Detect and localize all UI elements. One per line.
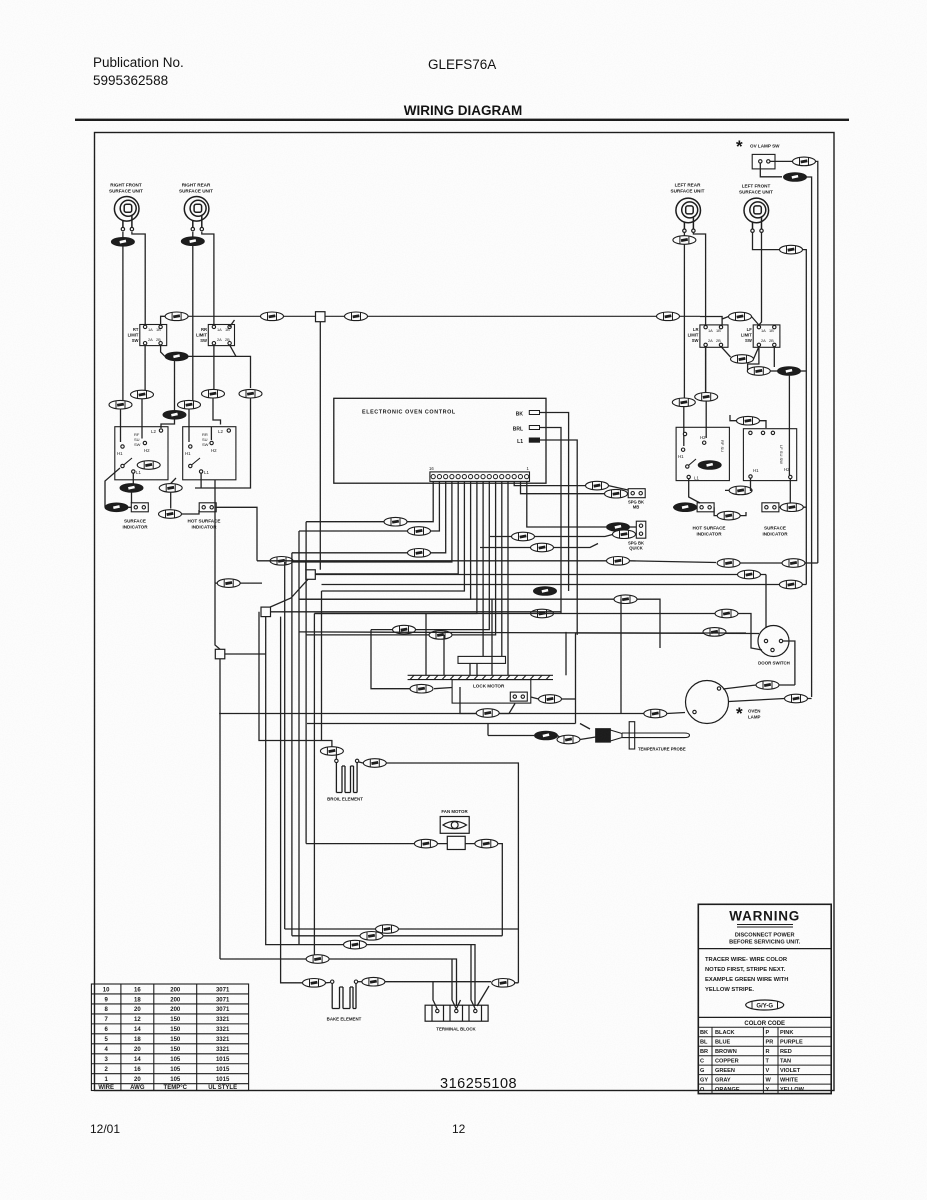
connector broil left — [320, 747, 343, 756]
wire LR L1 down — [689, 479, 700, 503]
connector bus 371 a — [747, 367, 770, 376]
connector probe 1 — [535, 731, 558, 740]
wire bus 574 into door switch — [765, 575, 767, 629]
broil element — [335, 759, 359, 792]
wire L1 right down — [540, 440, 578, 635]
wire right ind 3 down — [730, 415, 766, 428]
connector right bus top — [729, 312, 752, 321]
wire EOC t5 to lock bracket — [501, 481, 503, 656]
wire bus 612 — [271, 611, 562, 613]
wire probe 2b — [580, 737, 596, 740]
connector low right — [492, 979, 515, 988]
connector spg bk quick 1 — [607, 523, 630, 532]
connector block hot surface right — [697, 503, 714, 512]
left front surface unit LF — [744, 198, 769, 232]
connector door area — [756, 681, 779, 690]
wire bundle v4 — [305, 522, 307, 844]
connector surface indicator — [120, 484, 143, 493]
wire LR sw pin down — [705, 347, 707, 395]
wire right ind mid link — [714, 507, 746, 515]
connector inside RF su sw — [137, 461, 160, 470]
wire surface ind left — [105, 468, 131, 507]
wire bundle v5 — [313, 614, 315, 956]
connector spg bk quick 2 — [613, 530, 636, 539]
wire probe 1b — [488, 724, 563, 740]
wire bake feed — [281, 617, 302, 983]
wire right ind left link — [673, 506, 697, 508]
connector hot surface 2 — [159, 510, 182, 519]
wire bus to RR sw pin — [230, 320, 235, 327]
wire bus 632 — [299, 632, 759, 634]
wire low bus 959 to block — [329, 959, 457, 1006]
wire broil left up — [335, 751, 337, 759]
connector below lock — [476, 709, 499, 718]
wire bus 584 — [322, 584, 807, 586]
wire right ind right link — [779, 506, 806, 508]
connector below right sw — [731, 355, 754, 364]
wire to RF su sw L2 — [161, 419, 175, 428]
wire gauge table — [91, 984, 248, 1091]
LF limit switch box — [753, 325, 780, 347]
wire spg bk mb link — [609, 486, 629, 490]
wire door area links — [723, 685, 795, 689]
wire LR 2A to indicator — [705, 347, 708, 438]
wire low bus 945 to block — [367, 945, 475, 1006]
connector mid feed — [531, 543, 554, 552]
connector bus 371 b — [778, 367, 801, 376]
wire LR left lead down to indicator — [683, 244, 685, 398]
connector bake right — [362, 977, 385, 986]
wire junction top to mid — [319, 322, 321, 570]
wire bake left link — [326, 982, 331, 984]
connector top bus mid — [261, 312, 284, 321]
wire broil right — [359, 762, 363, 763]
connector fan left — [414, 839, 437, 848]
wire bundle v3 — [298, 531, 300, 945]
connector quick feed 1 — [512, 532, 535, 541]
connector LF lead — [780, 245, 803, 254]
wire LF H2 down — [789, 479, 791, 503]
wire into RF su sw H1 — [120, 409, 122, 442]
wire to block right — [477, 983, 518, 1006]
connector top bus left — [165, 312, 188, 321]
wire lamp sw left pin down — [760, 163, 782, 177]
connector spg bk quick — [636, 521, 646, 538]
terminal block — [425, 1005, 488, 1021]
wire junction2 down — [266, 617, 299, 945]
wire block pin2 up — [452, 959, 461, 1009]
connector fan wire 2 — [408, 527, 431, 536]
wire bundle v1 — [284, 562, 286, 929]
connector above surface ind 5 — [178, 400, 201, 409]
wire bus 599 — [299, 599, 660, 648]
wire lock left — [434, 688, 452, 689]
wire bake right bus — [385, 981, 491, 983]
wire to indicator block — [131, 492, 133, 503]
wire hot surface link — [182, 510, 200, 514]
wire RR sw down — [213, 345, 215, 389]
wire EOC t13 — [285, 481, 452, 562]
connector LR lead — [673, 236, 696, 245]
wire lock left up — [371, 630, 410, 689]
tracer example oval — [746, 1000, 784, 1010]
connector BK wire — [534, 587, 557, 596]
title underline — [75, 119, 849, 121]
warning box — [698, 904, 831, 1093]
connector low 929 — [376, 925, 399, 934]
oven lamp — [686, 681, 729, 724]
connector inside LR su sw — [698, 461, 721, 470]
connector right ind 3 — [737, 416, 760, 425]
connector right ind 2 — [695, 393, 718, 402]
wire lock hatch feed 2 — [443, 635, 445, 675]
wire RT sw to bus — [161, 316, 165, 325]
wire into RF su sw — [141, 399, 143, 439]
wire bus to junction1 — [305, 561, 307, 570]
wire quick link 2 — [490, 536, 511, 538]
wire RR left lead down — [192, 246, 194, 405]
wire RR sw pin to lower bus — [230, 345, 236, 357]
wire bus 561 right — [630, 561, 716, 563]
wire block pin1 up — [433, 982, 437, 1009]
wire bus 583 — [215, 582, 262, 584]
wire 371 to right edge — [800, 370, 806, 372]
wire bake right — [358, 981, 362, 983]
connector RR lead — [181, 237, 204, 246]
wire right bus top link — [700, 317, 759, 326]
door switch — [758, 626, 789, 657]
connector broil right — [363, 759, 386, 768]
connector bus 561 mid — [607, 557, 630, 566]
connector BRL wire — [531, 609, 554, 618]
junction node mid 1 — [306, 570, 316, 580]
wire EOC t9 — [314, 481, 477, 613]
wire LF 2B down — [773, 347, 775, 367]
connector fan right — [475, 839, 498, 848]
lock motor hatched bar — [408, 675, 553, 679]
connector L1 wire 2 — [429, 631, 452, 640]
wire EOC t4 to lock bar — [507, 481, 509, 675]
RF SU SW box — [115, 427, 168, 480]
RT limit switch box — [140, 325, 167, 346]
wire BK right down — [540, 413, 569, 592]
connector spg bk mb — [628, 489, 645, 498]
wire top bus — [188, 315, 700, 317]
connector bus 583 — [217, 579, 240, 588]
wire into RR su sw — [211, 398, 220, 440]
wire EOC t1 to quick — [527, 481, 606, 527]
junction node mid 3 — [215, 649, 225, 659]
connector low 936 — [360, 932, 383, 941]
lock motor bracket — [458, 656, 506, 663]
wire LF lead down right side — [803, 250, 807, 585]
wire broil trunk right — [386, 763, 518, 983]
wire lower bus oval down — [174, 360, 176, 410]
junction node mid 2 — [261, 607, 271, 617]
temperature probe — [596, 722, 690, 749]
wire mid feed — [480, 547, 530, 549]
connector hot surface 1 — [159, 484, 182, 493]
main diagram border — [95, 133, 835, 1091]
wire mid feed b — [554, 544, 598, 548]
wire hot surface sw down — [214, 480, 216, 583]
wire LR left lead — [683, 233, 685, 236]
wire gauge table text — [98, 987, 237, 1091]
wire block pin3 up — [471, 945, 475, 1009]
wire RR left lead — [192, 232, 194, 237]
wire probe 1 — [488, 735, 534, 737]
wire lamp sw down right edge — [816, 161, 818, 563]
wire hot surface out right — [216, 507, 257, 561]
connector above surface ind 1 — [131, 390, 154, 399]
connector RF lead — [111, 238, 134, 247]
wire RF left lead — [122, 232, 124, 238]
wire bus371 down to H2 — [788, 373, 790, 475]
wire RT sw to lower bus — [161, 345, 165, 357]
wire door sw right down — [783, 641, 795, 685]
wire into RR su sw H1 — [188, 409, 190, 442]
wire LF left lead — [753, 233, 780, 250]
connector above surface ind 4 — [109, 400, 132, 409]
connector bus 632 — [703, 628, 726, 637]
wire below lock links — [460, 687, 515, 714]
wire LF right lead to LF limit sw — [759, 233, 762, 325]
wire lamp sw to connector — [770, 160, 792, 162]
wire EOC t3 to spg — [514, 481, 585, 485]
wire low bus 929 — [285, 928, 375, 930]
wire RF L1 down — [132, 473, 134, 483]
wire lock to connector — [531, 697, 539, 699]
connector lamp right — [785, 694, 808, 703]
wire BRL right down — [540, 428, 562, 614]
connector block hot surface indicator — [199, 503, 216, 512]
wire EOC t15 — [299, 481, 439, 531]
wire fan right down — [465, 844, 502, 936]
connector lock right — [539, 695, 562, 704]
LR SU SW box — [676, 427, 729, 480]
connector bus 614 — [715, 609, 738, 618]
wire low bus 945 — [299, 944, 343, 946]
connector right ind 1 — [672, 398, 695, 407]
connector lamp left — [644, 709, 667, 718]
wire bus 574 long — [315, 574, 766, 576]
connector right mid ind — [729, 486, 752, 495]
wire lock hatch feed 1 — [425, 614, 427, 676]
wire EOC t14 — [292, 481, 446, 552]
wire lock hatch feed 3 — [491, 599, 493, 675]
connector top bus right — [345, 312, 368, 321]
connector low 959 — [306, 955, 329, 964]
wire junction mid down — [270, 579, 308, 607]
connector fan wire 3 — [408, 549, 431, 558]
wire lower bus right — [188, 356, 251, 388]
wire RR L1 down — [171, 473, 201, 488]
connector bus 574 — [738, 570, 761, 579]
electronic oven control box U1 — [334, 398, 546, 483]
connector above surface ind 6 — [163, 411, 186, 420]
fan motor — [440, 817, 469, 850]
connector bus 599 — [614, 595, 637, 604]
connector lock motor — [510, 692, 527, 701]
wire bracket stem — [470, 663, 477, 675]
connector bus 561 right — [717, 559, 740, 568]
left rear surface unit LR — [676, 198, 701, 232]
wire bus 561 right b — [741, 562, 783, 564]
connector right ind left — [674, 503, 697, 512]
lock motor body — [452, 680, 531, 704]
wire EOC t8 — [371, 481, 489, 629]
connector bake left — [303, 979, 326, 988]
wire bus 561 main — [257, 560, 606, 562]
wire RT sw down — [144, 345, 146, 390]
connector lower bus — [165, 352, 188, 361]
wire low bus 959 — [220, 958, 306, 960]
wire bus 614 long — [314, 614, 762, 651]
connector spg bk mb 2 — [605, 489, 628, 498]
wire lock hatch feed 4 — [565, 632, 567, 675]
connector fan wire 4 — [270, 557, 293, 566]
wire lamp right links — [729, 699, 812, 702]
RR SU SW box — [183, 427, 236, 480]
wire ind links — [725, 478, 752, 490]
connector above surface ind 3 — [239, 389, 262, 398]
connector bus 584 — [779, 580, 802, 589]
wire lamp left 2 — [667, 713, 685, 714]
LR limit switch box — [700, 325, 728, 347]
wire lock right link — [562, 698, 576, 700]
wire below sw to LF and bus371 — [748, 347, 759, 371]
wire low bus 936 — [292, 935, 360, 937]
tracer wire text — [705, 957, 788, 993]
wire EOC t8 to lock bracket — [482, 481, 484, 656]
wire right ind down — [683, 407, 685, 446]
wire EOC t2 to spg — [521, 481, 605, 493]
wire LR sw down — [721, 347, 731, 357]
connector block surface indicator — [131, 503, 148, 512]
connector top bus far right — [657, 312, 680, 321]
wire RF left lead down — [122, 246, 124, 404]
connector spg bk mb 1 — [586, 481, 609, 490]
RR limit switch box — [208, 325, 234, 346]
wire quick link — [630, 526, 637, 528]
right front surface unit RF — [114, 197, 139, 231]
color code text — [700, 1030, 805, 1093]
connector L1 wire 1 — [393, 625, 416, 634]
wire 371 link — [770, 370, 778, 372]
wire RF right lead to RT limit sw — [132, 232, 145, 325]
wire EOC t16 — [306, 481, 433, 521]
wire EOC t11 — [322, 481, 465, 591]
junction node top bus — [316, 312, 326, 322]
wire broil to bus612 — [259, 612, 332, 747]
wire EOC t10 — [299, 481, 471, 599]
wire EOC t7 — [306, 481, 496, 635]
connector probe 2 — [557, 735, 580, 744]
wire fan left to bundle — [306, 843, 447, 845]
connector right ind mid — [717, 511, 740, 520]
wire bundle v2 — [291, 553, 293, 936]
connector bus 561 far right — [782, 559, 805, 568]
connector surface ind left — [105, 503, 128, 512]
LF SU SW box — [743, 429, 796, 481]
connector lock left — [410, 684, 433, 693]
connector block surface right — [762, 503, 779, 512]
connector fan wire 1 — [384, 517, 407, 526]
EOC terminal strip — [429, 466, 530, 481]
wire bundle v6 — [321, 591, 323, 741]
wire LR right lead to LR limit sw — [693, 233, 705, 325]
wire junction3 down — [220, 654, 266, 959]
connector right ind right — [780, 503, 803, 512]
wire low bus 929 b — [399, 928, 518, 930]
wire low bus 936 b — [383, 935, 502, 937]
wire quick link 2b — [535, 535, 613, 537]
bake element — [331, 980, 358, 1009]
wire lamp bus 713 — [219, 599, 667, 713]
connector above surface ind 2 — [202, 389, 225, 398]
wire lamp enclosure — [307, 633, 746, 729]
wire down to junction3 — [215, 583, 220, 649]
oven lamp switch box — [752, 154, 775, 169]
connector low 945 — [344, 940, 367, 949]
connector lamp sw lower — [784, 173, 807, 182]
wire EOC t12 — [311, 481, 459, 574]
right rear surface unit RR — [184, 197, 209, 231]
wire lamp sw lower down right edge — [807, 177, 812, 697]
wire lower bus down to L1 link — [195, 398, 251, 488]
wire hot surface down — [170, 492, 172, 508]
wire RR right lead to RR limit sw — [202, 232, 214, 325]
connector lamp sw right — [793, 157, 816, 166]
color code table — [698, 1027, 831, 1093]
wire bus 561 end — [805, 562, 818, 564]
